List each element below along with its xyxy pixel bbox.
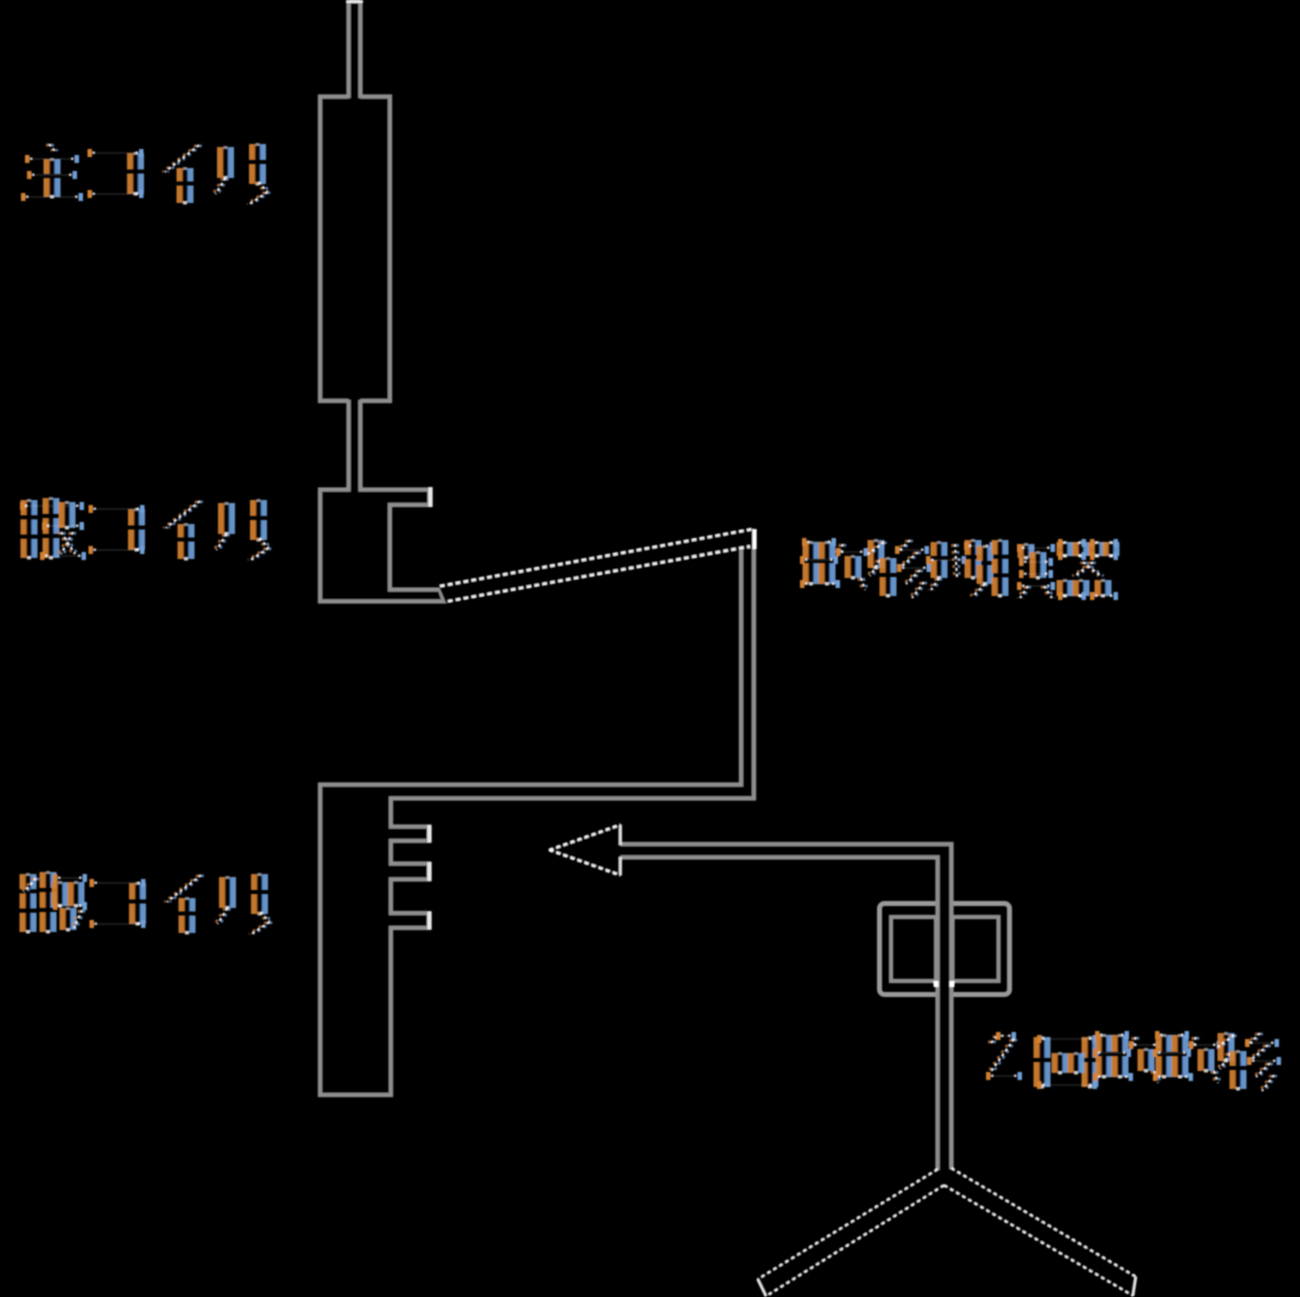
glyph 4-3 [926, 539, 994, 596]
wire: lead between coil L1 and coil L2 [349, 398, 361, 491]
switch blade top edge stipple [440, 529, 752, 586]
glyph 2-3 (i) [163, 501, 202, 561]
variometer right winding square [953, 917, 999, 981]
switch pivot cap (white) [752, 529, 756, 549]
switch blade (wedge) [438, 528, 753, 604]
glyph 2-2 (ko) [89, 505, 146, 554]
glyph 3-3 (i) [164, 875, 203, 935]
variometer outer box [880, 904, 1010, 995]
glyph 1-1 [21, 144, 83, 201]
coil L2 body with terminals [320, 490, 444, 602]
wire: arrow shaft, down-bar through variometer, forked legs [616, 844, 1136, 1297]
left leg outer stipple [758, 1169, 938, 1279]
terminal cap (white) on coil L2 upper terminal [428, 487, 432, 507]
coil L1 (main coil) body [320, 97, 390, 402]
glyph 3-4 (ru) [215, 873, 272, 934]
glyph 4-2 [865, 539, 931, 598]
arrowhead (points left at coil L3 taps) [549, 825, 621, 876]
glyph 4-5 [1057, 539, 1120, 600]
wire: top lead into coil L1 [349, 0, 361, 100]
glyph 5-5 [1215, 1032, 1281, 1091]
glyph 5-1 (2) [986, 1032, 1022, 1080]
glyph 4-4 [992, 539, 1056, 598]
glyph 5-4 [1153, 1031, 1221, 1083]
glyph 5-3 [1093, 1031, 1161, 1083]
variometer left winding square [891, 917, 936, 981]
glyph 5-2 [1034, 1035, 1099, 1089]
coil L3 body + bus wire from switch pivot, with 3 taps [320, 534, 754, 1096]
tap caps (white) on coil L3 [427, 825, 431, 843]
glyph 1-4 (ru) [213, 143, 270, 204]
right leg inner stipple [944, 1186, 1133, 1297]
re-blank lead L1-L2 core over coil L2 top edge [351, 487, 359, 492]
glyph 3-1 [20, 871, 88, 934]
bright joints at winding bottoms [934, 981, 939, 987]
glyph 1-2 (ko) [88, 149, 145, 198]
left leg inner stipple [766, 1186, 944, 1297]
glyph 4-1 [800, 538, 868, 590]
glyph 2-4 (ru) [214, 499, 271, 560]
leg end caps [758, 1279, 767, 1297]
right leg outer stipple [952, 1168, 1137, 1277]
glyph 3-2 (ko) [90, 879, 147, 928]
glyph 1-3 (i) [162, 145, 201, 205]
glyph 2-1 [20, 497, 86, 560]
switch blade bottom edge stipple [448, 547, 750, 602]
